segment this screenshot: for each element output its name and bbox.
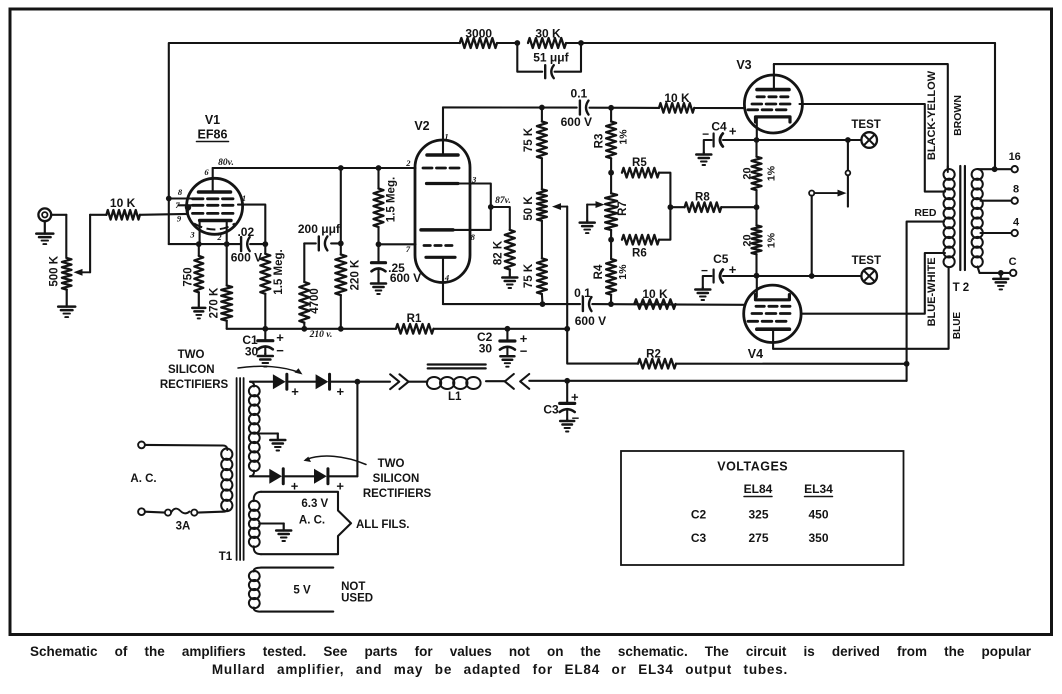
svg-text:A. C.: A. C. <box>130 473 156 485</box>
V2 lower plate bar (pin 8) <box>421 228 453 232</box>
svg-text:V2: V2 <box>414 119 429 133</box>
svg-text:1%: 1% <box>765 232 777 248</box>
svg-text:80v.: 80v. <box>218 158 234 168</box>
T1 primary winding <box>220 445 233 511</box>
T2 secondary 8 ohm tap <box>981 184 1020 204</box>
wire V2 pin 3 to pin 8 <box>453 184 494 230</box>
svg-text:.02: .02 <box>237 225 254 239</box>
node R7/R6/R4 junction <box>608 237 614 243</box>
ground (C5) <box>695 288 710 301</box>
svg-text:50 K: 50 K <box>523 196 535 221</box>
V1 cathode bar <box>200 219 231 222</box>
T1 6.3V winding <box>248 492 261 554</box>
svg-text:V3: V3 <box>736 58 751 72</box>
node V3 cathode / C4 <box>754 137 760 143</box>
diode rectifier D1 <box>250 374 299 399</box>
capacitor .25 600 V <box>372 244 422 285</box>
svg-text:4: 4 <box>444 273 449 283</box>
capacitor C3 (electrolytic) <box>543 381 579 426</box>
ground (C1) <box>258 354 273 367</box>
node junction 3000/30K left <box>514 40 520 46</box>
svg-text:+: + <box>571 389 579 404</box>
label 87v. <box>495 196 511 206</box>
svg-text:C4: C4 <box>711 119 727 133</box>
svg-text:VOLTAGES: VOLTAGES <box>717 460 788 474</box>
svg-text:325: 325 <box>748 508 768 522</box>
capacitor 200 uuf <box>298 222 344 251</box>
label 5 V <box>293 585 311 597</box>
svg-text:A. C.: A. C. <box>299 515 325 527</box>
wire lower rectifier to output node <box>356 382 358 477</box>
wire V2 cathode rail to V4 grid <box>443 301 744 307</box>
svg-text:1%: 1% <box>765 165 777 181</box>
ground (input jack) <box>36 221 53 244</box>
V1 suppressor dashed arc <box>194 224 235 230</box>
node rectifier output <box>355 379 361 385</box>
V3 cathode lead <box>756 118 758 140</box>
V2 upper plate bar and lead (pin 1) <box>427 107 458 155</box>
V4 extra dashes <box>748 320 786 323</box>
T1 6.3V tap to ground <box>259 522 284 524</box>
wire cathode bus <box>169 241 268 247</box>
resistor 1.5 Meg (V2 grid) <box>374 165 398 247</box>
tube V4 envelope <box>744 285 801 342</box>
V3 plate bar and lead <box>757 64 789 90</box>
label V3 <box>736 58 751 72</box>
resistor 220 K <box>335 165 361 329</box>
connector chevrons out <box>390 374 408 389</box>
V4 cathode bar <box>756 295 790 300</box>
capacitor 51 uuf (across 30 K) <box>517 43 581 78</box>
resistor R3 1% <box>594 108 630 173</box>
resistor 30 K <box>528 27 566 49</box>
table row C3 <box>691 531 829 545</box>
svg-text:30 K: 30 K <box>535 27 561 41</box>
label V1 / EF86 <box>197 113 229 142</box>
svg-text:4: 4 <box>1013 217 1020 229</box>
fuse 3A <box>145 509 222 533</box>
label 80v. <box>218 158 234 168</box>
svg-text:16: 16 <box>1009 151 1021 163</box>
svg-text:TWO: TWO <box>178 349 205 361</box>
svg-text:−: − <box>702 127 709 141</box>
ground (750) <box>192 292 205 318</box>
svg-text:30: 30 <box>245 345 259 359</box>
svg-text:51 μμf: 51 μμf <box>533 51 569 65</box>
tube V2 envelope <box>415 140 470 283</box>
svg-text:USED: USED <box>341 593 373 605</box>
resistor R4 1% <box>593 240 629 304</box>
table header EL34 <box>804 482 833 497</box>
label 210 v. <box>309 330 333 340</box>
resistor 20 1% (upper) <box>742 140 778 207</box>
svg-text:V1: V1 <box>205 113 220 127</box>
A.C. input terminals <box>138 442 145 516</box>
resistor R6 <box>622 235 659 260</box>
V2 upper cathode bar (pin 3) <box>427 182 459 185</box>
label TWO SILICON RECTIFIERS (lower) <box>363 458 432 500</box>
wire feedback from V1 cathode network up and across the top <box>169 43 995 244</box>
svg-text:275: 275 <box>748 531 768 545</box>
svg-text:270 K: 270 K <box>209 287 221 318</box>
V2 pin numbers <box>405 132 477 283</box>
T1 core <box>237 378 244 560</box>
svg-text:NOT: NOT <box>341 581 365 593</box>
svg-text:82 K: 82 K <box>492 240 504 265</box>
ground (82 K) <box>502 270 517 289</box>
svg-text:5 V: 5 V <box>293 585 311 597</box>
svg-text:ALL FILS.: ALL FILS. <box>356 519 409 531</box>
capacitor 0.1 600 V (lower) <box>574 286 606 328</box>
V4 plate bar and lead <box>757 329 790 349</box>
T2 secondary 16 ohm tap <box>978 151 1021 172</box>
T2 secondary winding <box>971 168 984 268</box>
svg-text:1: 1 <box>444 132 448 142</box>
V1 pin 8 lead <box>166 196 193 202</box>
label BROWN <box>952 95 964 136</box>
V2 upper grid dashes (pin 2) <box>423 167 459 170</box>
V3 screen row and lead to UL tap (BLACK-YELLOW) <box>752 104 942 192</box>
label T1 <box>219 551 233 563</box>
table row C2 <box>691 508 829 522</box>
svg-text:T 2: T 2 <box>953 282 970 294</box>
T2 primary winding <box>942 166 956 268</box>
svg-text:R2: R2 <box>646 348 661 360</box>
svg-text:C5: C5 <box>713 252 729 266</box>
svg-text:2: 2 <box>405 158 411 168</box>
svg-text:−: − <box>701 264 708 278</box>
resistor 3000 (feedback) <box>460 27 497 49</box>
resistor 750 <box>182 244 203 292</box>
wire R5 to R6 right side <box>659 173 670 240</box>
svg-text:3: 3 <box>189 230 195 240</box>
switch test select upper contact <box>846 140 851 207</box>
capacitor C5 (electrolytic) <box>701 252 757 287</box>
V1 cathode leads (pins 3,2) <box>200 222 227 244</box>
svg-text:3: 3 <box>471 175 477 185</box>
label V2 <box>414 119 429 133</box>
svg-text:TWO: TWO <box>378 458 405 470</box>
svg-text:R1: R1 <box>407 313 422 325</box>
V3 cathode bar <box>756 117 791 122</box>
table text VOLTAGES <box>717 460 788 474</box>
switch pole and arrow <box>809 190 846 276</box>
label TWO SILICON RECTIFIERS (upper) <box>160 349 229 391</box>
V4 screen row and lead to UL tap (BLUE-WHITE) <box>752 253 942 314</box>
resistor 82 K <box>491 207 515 270</box>
resistor 75 K (upper) <box>523 108 547 190</box>
label V4 <box>748 347 763 361</box>
table header EL84 <box>744 482 773 497</box>
wire RED B+ to T2 center tap <box>904 222 944 381</box>
svg-text:600 V: 600 V <box>561 115 592 129</box>
svg-text:87v.: 87v. <box>495 196 511 206</box>
wire D1 to D2 <box>288 381 315 383</box>
svg-text:BLUE-WHITE: BLUE-WHITE <box>926 257 938 326</box>
tube V3 envelope <box>744 75 802 133</box>
tube V1 envelope <box>187 178 243 234</box>
svg-text:R4: R4 <box>593 264 605 279</box>
svg-text:V4: V4 <box>748 347 763 361</box>
5V winding leads <box>261 568 333 612</box>
capacitor 0.1 600 V (upper) <box>561 87 592 129</box>
wire D3 to D4 <box>285 475 314 477</box>
resistor 10 K (V3 grid) <box>659 91 694 113</box>
svg-text:C3: C3 <box>543 403 559 417</box>
V1 pin 1 lead <box>238 205 265 245</box>
ground (.25 cap) <box>371 274 386 295</box>
T1 HV secondary winding <box>248 382 260 477</box>
wiper of 500 K pot <box>74 215 91 276</box>
V4 cathode lead <box>756 276 758 297</box>
leader to lower rectifiers <box>304 456 367 464</box>
V2 pin 4 lead <box>442 259 444 304</box>
T2 core <box>960 166 965 270</box>
svg-text:BLACK-YELLOW: BLACK-YELLOW <box>926 70 938 160</box>
resistor 1.5 Meg (V1 plate load) <box>260 244 285 329</box>
resistor R1 <box>396 313 434 334</box>
ground (6.3V winding) <box>276 524 291 542</box>
ground (C2) <box>500 356 514 367</box>
svg-text:RED: RED <box>914 207 937 219</box>
wire V1 plate to V2 grid <box>213 167 416 169</box>
wire C5 node to test lamp <box>757 273 862 279</box>
wiper of R7 <box>587 201 604 220</box>
svg-text:1.5 Meg.: 1.5 Meg. <box>385 177 397 222</box>
resistor 20 1% (lower) <box>742 207 778 276</box>
label RED <box>914 207 937 219</box>
svg-text:RECTIFIERS: RECTIFIERS <box>160 379 229 391</box>
potentiometer R7 <box>605 173 629 240</box>
lamp TEST (lower) <box>852 255 881 284</box>
svg-text:0.1: 0.1 <box>574 286 591 300</box>
svg-text:C2: C2 <box>691 508 707 522</box>
wire V4 plate to T2 primary bottom (BLUE) <box>773 267 949 349</box>
svg-text:R7: R7 <box>617 201 629 216</box>
svg-text:TEST: TEST <box>852 255 881 267</box>
svg-text:1: 1 <box>242 193 246 203</box>
label A. C. <box>130 473 156 485</box>
svg-text:1%: 1% <box>618 129 630 145</box>
V4 grid dashes <box>756 305 790 308</box>
T1 5V winding <box>248 568 261 612</box>
svg-text:+: + <box>337 384 345 399</box>
label NOT USED <box>341 581 373 605</box>
wire A.C. hot to T1 primary <box>145 444 222 447</box>
svg-text:75 K: 75 K <box>523 263 535 288</box>
svg-text:R5: R5 <box>632 157 647 169</box>
svg-text:10 K: 10 K <box>110 196 136 210</box>
svg-text:−: − <box>572 410 580 425</box>
svg-text:3000: 3000 <box>465 27 492 41</box>
svg-text:BLUE: BLUE <box>952 312 963 340</box>
svg-text:RECTIFIERS: RECTIFIERS <box>363 488 432 500</box>
svg-text:−: − <box>520 344 528 359</box>
label BLUE <box>952 312 963 340</box>
V1 pin 7 lead <box>179 204 193 213</box>
resistor 10 K (V4 grid) <box>634 287 675 309</box>
svg-text:1.5 Meg.: 1.5 Meg. <box>273 249 285 294</box>
capacitor C2 30 (electrolytic) <box>477 329 528 359</box>
wire jack to volume pot <box>65 215 67 258</box>
label T 2 <box>953 282 970 294</box>
wire C4 node to test lamp <box>757 137 862 143</box>
6.3V ALL FILS box <box>261 492 409 554</box>
svg-text:TEST: TEST <box>851 119 880 131</box>
V1 pin numbers <box>175 167 246 242</box>
label BLACK-YELLOW <box>926 70 938 160</box>
svg-text:R6: R6 <box>632 248 647 260</box>
ground (C3) <box>560 420 574 432</box>
svg-text:SILICON: SILICON <box>168 364 215 376</box>
svg-text:R8: R8 <box>695 191 710 203</box>
svg-text:350: 350 <box>808 531 828 545</box>
connector chevrons in <box>505 374 529 389</box>
node junction 30K right <box>578 40 584 46</box>
ground (T1 HV center tap) <box>270 434 285 451</box>
svg-text:8: 8 <box>1013 184 1019 196</box>
resistor R5 <box>622 157 659 178</box>
svg-text:EF86: EF86 <box>198 128 228 142</box>
svg-text:EL34: EL34 <box>804 482 833 496</box>
svg-text:T1: T1 <box>219 551 233 563</box>
svg-text:6.3 V: 6.3 V <box>301 498 328 510</box>
choke L1 <box>427 365 486 404</box>
svg-text:1%: 1% <box>617 264 629 280</box>
svg-text:450: 450 <box>808 508 828 522</box>
V1 plate bar and lead (pin 6) <box>199 168 231 192</box>
resistor 4700 <box>299 243 321 328</box>
voltages table box <box>621 451 904 565</box>
leader to upper rectifiers <box>238 366 303 374</box>
capacitor C1 30 (electrolytic) <box>242 329 284 359</box>
svg-text:500 K: 500 K <box>49 255 61 286</box>
svg-text:600 V: 600 V <box>575 314 606 328</box>
node V4 cathode / C5 <box>754 273 760 279</box>
input jack <box>38 208 66 221</box>
wire rectifier output / B+ line <box>357 378 906 384</box>
V1 grid/screen dashed rows <box>193 199 234 214</box>
ground (C4) <box>696 153 711 166</box>
svg-text:75 K: 75 K <box>523 127 535 152</box>
node 20-ohm mid / R8 <box>754 204 760 210</box>
lamp TEST (upper) <box>851 119 880 148</box>
svg-text:10 K: 10 K <box>642 287 668 301</box>
resistor 270 K <box>209 244 233 329</box>
wire V3 plate to T2 primary top (BROWN) <box>774 64 948 169</box>
svg-text:+: + <box>291 384 299 399</box>
svg-text:8: 8 <box>471 232 476 242</box>
ground (500 K pot) <box>58 290 75 318</box>
svg-text:200 μμf: 200 μμf <box>298 222 341 236</box>
V2 lower cathode bar (pin 4) <box>426 256 455 259</box>
potentiometer 500 K (volume) <box>49 255 72 289</box>
label BLUE-WHITE <box>926 257 938 326</box>
svg-text:600 V: 600 V <box>390 271 421 285</box>
capacitor C4 (electrolytic) <box>702 119 756 152</box>
resistor 10 K (grid stopper V1) <box>90 196 188 219</box>
capacitor .02 600 V <box>231 225 262 265</box>
ground (R7 wiper) <box>580 221 595 234</box>
V3 screen dashes <box>757 95 788 98</box>
diode rectifier D4 <box>314 469 357 494</box>
diode rectifier D3 <box>250 469 299 494</box>
svg-text:750: 750 <box>182 267 194 286</box>
svg-text:2: 2 <box>216 232 222 242</box>
svg-text:10 K: 10 K <box>664 91 690 105</box>
svg-text:210 v.: 210 v. <box>309 330 333 340</box>
svg-text:SILICON: SILICON <box>373 473 420 485</box>
svg-text:4700: 4700 <box>309 288 321 314</box>
svg-text:20: 20 <box>742 167 754 179</box>
svg-text:20: 20 <box>742 234 754 246</box>
svg-text:+: + <box>729 124 737 139</box>
svg-text:C3: C3 <box>691 531 707 545</box>
resistor R2 <box>638 348 907 368</box>
svg-text:BROWN: BROWN <box>952 95 964 136</box>
V2 lower grid dashes (pin 7) <box>424 244 452 247</box>
svg-text:600 V: 600 V <box>231 251 262 265</box>
diode rectifier D2 <box>316 374 358 399</box>
svg-text:3A: 3A <box>176 521 191 533</box>
wire 50K wiper down to R2 <box>564 207 638 364</box>
V3 grid dashes <box>748 108 786 111</box>
svg-text:+: + <box>729 262 737 277</box>
svg-text:L1: L1 <box>448 391 462 403</box>
resistor 75 K (lower) <box>523 221 547 304</box>
T2 secondary 4 ohm tap <box>981 217 1020 237</box>
svg-text:EL84: EL84 <box>744 482 773 496</box>
T2 secondary common C <box>978 256 1017 276</box>
wire to V2 pin 7 <box>379 243 416 245</box>
node R3/R5/R7 junction <box>608 170 614 176</box>
svg-text:−: − <box>276 343 284 358</box>
wire 210 v rail <box>227 326 568 332</box>
svg-text:30: 30 <box>479 342 493 356</box>
svg-text:0.1: 0.1 <box>571 87 588 101</box>
potentiometer 50 K (hum balance) <box>523 189 547 221</box>
ground (T2 common) <box>993 273 1008 290</box>
svg-text:220 K: 220 K <box>350 259 362 290</box>
svg-text:R3: R3 <box>594 134 606 149</box>
resistor R8 <box>668 191 757 212</box>
wiper of 50 K pot <box>552 203 567 210</box>
T1 HV center tap to ground <box>259 432 278 434</box>
wire V2 plate to V3 grid <box>443 105 744 111</box>
svg-text:C: C <box>1009 256 1017 268</box>
